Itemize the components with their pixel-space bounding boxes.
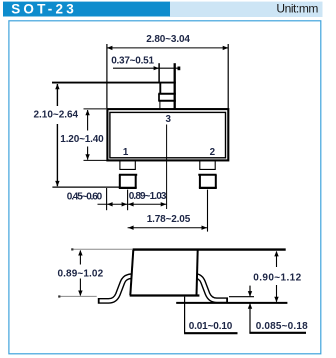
dimension 0.89~1.02 line upper <box>79 251 81 265</box>
foot top extension line for 0.085~0.18 <box>229 296 254 298</box>
dimension 2.80~3.04 extension line left <box>106 44 108 108</box>
package centerline <box>166 125 168 210</box>
svg-text:0.89~1.03: 0.89~1.03 <box>129 191 167 202</box>
pin 2 tip bottom edge <box>199 187 217 189</box>
package body top edge + right extension (thick) <box>133 248 286 250</box>
header blue bar <box>3 2 170 17</box>
package body outer (top view) <box>107 109 228 160</box>
dimension 0.01~0.10 leader line <box>184 297 186 334</box>
pin 1 tip left edge <box>119 175 121 188</box>
dimension 1.78~2.05 line <box>128 227 208 229</box>
svg-text:0.37~0.51: 0.37~0.51 <box>111 56 154 67</box>
pin 2 base left edge <box>199 160 201 169</box>
svg-text:SOT-23: SOT-23 <box>11 2 77 17</box>
dimension 2.10~2.64 line upper <box>56 84 58 106</box>
svg-text:2.10~2.64: 2.10~2.64 <box>34 110 79 121</box>
pin 2 fold line 1 <box>199 168 215 170</box>
pin 2 fold line 2 <box>198 174 216 176</box>
pin 2 center extension line <box>207 190 209 232</box>
right gull-wing lead (side view) <box>191 276 229 301</box>
svg-text:2.80~3.04: 2.80~3.04 <box>146 34 190 45</box>
dimension 2.80~3.04 extension line right <box>227 44 229 108</box>
pin 1 tip right edge <box>135 175 137 188</box>
pin 1 center extension line <box>127 190 129 211</box>
seating plane line <box>176 302 287 304</box>
side view: 0.89~1.02 top extension line <box>72 248 133 250</box>
svg-text:0.90~1.12: 0.90~1.12 <box>253 273 301 284</box>
side view: 0.89~1.02 bottom extension line <box>59 295 97 297</box>
pin 1 base right edge <box>134 160 136 169</box>
dimension 2.10~2.64 top extension line <box>52 82 176 84</box>
pin 2 tip left edge <box>199 175 201 188</box>
pin 2 tip right edge <box>215 175 217 188</box>
svg-text:3: 3 <box>165 114 171 125</box>
svg-text:0.085~0.18: 0.085~0.18 <box>256 321 308 332</box>
dimension 0.085~0.18 lower arrow / leader <box>249 304 251 333</box>
pin 1 base left edge <box>119 160 121 169</box>
svg-text:1.78~2.05: 1.78~2.05 <box>147 214 191 225</box>
header light strip <box>170 2 323 17</box>
dimension 1.20~1.40 line lower <box>87 147 89 160</box>
pin 1 tip bottom edge <box>119 187 137 189</box>
dimension 0.085~0.18 underline <box>249 332 306 334</box>
left gull-wing lead (side view) <box>98 276 135 301</box>
pin 3 base left edge <box>159 101 161 109</box>
pin 1 fold line 1 <box>119 168 135 170</box>
dimension 0.37~0.51 line <box>113 67 178 69</box>
dimension 1.20~1.40 line upper <box>87 110 89 131</box>
svg-text:2: 2 <box>210 147 216 158</box>
pin 3 fold line 1 <box>158 93 176 95</box>
pin 2 base right edge <box>214 160 216 169</box>
dimension 1.20~1.40 top extension line <box>84 108 107 110</box>
pin 3 right edge / extension <box>174 63 176 108</box>
dimension 0.89~1.02 line lower <box>79 279 81 296</box>
svg-text:0.01~0.10: 0.01~0.10 <box>189 321 233 332</box>
svg-text:1: 1 <box>123 147 129 158</box>
body left edge extension line (below) <box>106 188 108 210</box>
svg-text:Unit:mm: Unit:mm <box>276 1 318 15</box>
dimension 2.10~2.64 bottom extension line <box>52 186 119 188</box>
package body inner (top view) <box>110 112 226 157</box>
svg-text:0.89~1.02: 0.89~1.02 <box>57 268 103 279</box>
dimension 1.20~1.40 bottom extension line <box>84 159 107 161</box>
package body bottom edge (side view) <box>130 294 200 296</box>
pin 1 fold line 2 <box>119 174 137 176</box>
svg-text:1.20~1.40: 1.20~1.40 <box>60 134 104 145</box>
pin 3 tip left edge <box>159 82 161 94</box>
dimension 0.37~0.51 extension line left <box>158 63 160 82</box>
svg-text:0.45~0.60: 0.45~0.60 <box>67 192 103 203</box>
dimension 0.01~0.10 underline <box>184 332 237 334</box>
pin 3 fold line 2 <box>158 100 176 102</box>
package body (side view) fill <box>130 250 197 296</box>
dimension 2.10~2.64 line lower <box>56 124 58 186</box>
package body right edge (side view) <box>197 250 198 295</box>
package body left edge (side view) <box>130 250 133 295</box>
dimension 0.90~1.12 line upper <box>276 252 278 268</box>
dimension 0.45~0.60 / 0.89~1.03 line <box>98 203 167 205</box>
dimension 2.80~3.04 line <box>107 47 228 49</box>
dimension 0.90~1.12 line lower <box>276 285 278 302</box>
dimension 0.085~0.18 upper arrow <box>249 286 251 297</box>
pin 3 mid left edge <box>158 94 160 101</box>
